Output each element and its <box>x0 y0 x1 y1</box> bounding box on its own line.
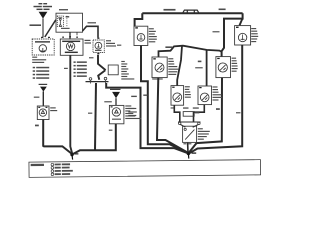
inline connector on bus <box>182 10 199 14</box>
legend item 3 <box>51 170 54 173</box>
horn H5 (bottom left) <box>171 86 184 106</box>
label FROM INSTRUMENT CLUSTER <box>34 3 53 10</box>
labels right of horn H6 <box>213 86 223 100</box>
wire relay K3 to ground <box>189 45 242 153</box>
label right of horn H2 <box>85 40 92 44</box>
ground node W2 (left) <box>70 153 78 160</box>
horn H3 <box>152 57 167 78</box>
wire (diagonal feed to horn 1) <box>45 20 56 37</box>
wire relay K1 down with inline connector <box>98 55 106 80</box>
labels right of horn H5 <box>185 86 191 98</box>
wire bus right end down <box>222 13 243 56</box>
wire label BK (below left horn relay) <box>35 125 39 127</box>
label left of relay K2 <box>117 45 121 46</box>
fuse box F1 <box>56 9 83 32</box>
wire terminal strip to left ground (long drop) <box>95 83 96 150</box>
wire horn H3 to ground <box>157 78 188 153</box>
legend box <box>29 160 261 178</box>
terminal strip 2 <box>178 122 201 125</box>
wire left box to ground W2 <box>43 120 72 155</box>
pin code labels under horn H1 <box>33 67 50 79</box>
wire horn H2 to ground W2 <box>70 55 72 154</box>
connector box C2 (center bottom) <box>183 112 199 117</box>
horn H1 (left) <box>32 37 54 55</box>
wire label left of drop <box>213 31 220 32</box>
wire mid feed to horn H5 branch <box>177 46 182 86</box>
wire fuse box to relay K1 <box>83 26 99 37</box>
pin labels under horns <box>171 107 199 108</box>
wire switch to ground <box>187 143 189 153</box>
horn relay (left small box) <box>37 106 49 120</box>
wire label 0.5 GY/RD <box>30 24 42 26</box>
wire stub to relay K3 <box>240 19 243 26</box>
horn H4 (right column) <box>216 57 231 78</box>
wire label 2.5 RD <box>195 67 203 68</box>
relay K3 <box>235 26 251 45</box>
wire label <box>34 97 40 98</box>
label FROM H (left) <box>39 84 48 85</box>
labels right of relay K2 <box>149 28 157 42</box>
wire label <box>89 57 94 58</box>
wire <box>115 98 117 105</box>
switch pin labels <box>183 143 191 144</box>
connector arrow C (left from) <box>40 87 47 92</box>
mid feed wire (horns) <box>159 46 223 57</box>
wire label <box>104 101 112 102</box>
anti-theft switch S1 <box>183 126 197 142</box>
wire terminal strip right branch <box>106 83 188 153</box>
label right of connector box <box>121 61 134 80</box>
wire bus to relay K2 <box>135 13 143 26</box>
wire label 1.5 RD <box>165 46 172 48</box>
labels right of horn H3 <box>168 58 178 75</box>
connector arrow A (from instrument cluster) <box>39 12 48 19</box>
wire label BK <box>64 68 68 69</box>
ground node W2 (right) <box>187 152 197 159</box>
terminal strip (bar with ring pins) <box>86 77 109 83</box>
label right of relay K1 <box>106 40 116 46</box>
horn relay (center small box) <box>109 105 124 123</box>
wire <box>69 32 71 39</box>
wire <box>42 91 44 106</box>
wire label 0.5 BK <box>88 22 97 23</box>
wires strip to switch <box>180 124 198 127</box>
legend item 4 <box>51 173 54 176</box>
wire horn H4 to horn H6 <box>189 78 222 153</box>
label right of center box <box>125 105 141 119</box>
labels right of switch S1 <box>198 128 210 140</box>
pin code labels right of wire below H2 <box>74 61 87 77</box>
relay K1 (dashed, signal eliminator) <box>93 38 104 55</box>
horn H2 (model B) <box>60 36 83 55</box>
legend item 2 <box>51 166 54 169</box>
bus label right <box>219 9 226 11</box>
wire feed to horn H6 <box>206 50 208 86</box>
label right of left small box <box>50 107 57 111</box>
wire label 1.5B <box>216 108 220 110</box>
wire label BK <box>109 130 113 131</box>
connector box C (dashed) <box>108 65 118 75</box>
pin stub <box>76 32 78 35</box>
label G5 below horn H1 <box>32 57 46 63</box>
label below horn H3 <box>152 78 163 79</box>
labels right of relay K3 <box>251 28 258 42</box>
label FROM (center) <box>110 89 121 90</box>
wire center box to left ground <box>73 124 116 154</box>
power bus (top right) <box>142 12 242 14</box>
wire relay K2 to ground (jog) <box>141 46 188 153</box>
wire <box>42 18 44 37</box>
horn H6 (bottom right) <box>198 86 212 105</box>
wire label <box>236 112 241 113</box>
legend item 1 <box>51 163 54 166</box>
wire label <box>198 61 202 63</box>
connector arrow B (center from) <box>112 92 120 98</box>
wire horn H5 down to strip <box>174 105 180 121</box>
wire horn H6 down to strip <box>194 105 205 122</box>
wire labels near K2 drop <box>128 95 147 117</box>
wire label BK <box>88 113 92 114</box>
relay K2 <box>134 26 148 45</box>
labels right of horn H4 <box>232 58 238 72</box>
bus label left <box>164 9 176 11</box>
